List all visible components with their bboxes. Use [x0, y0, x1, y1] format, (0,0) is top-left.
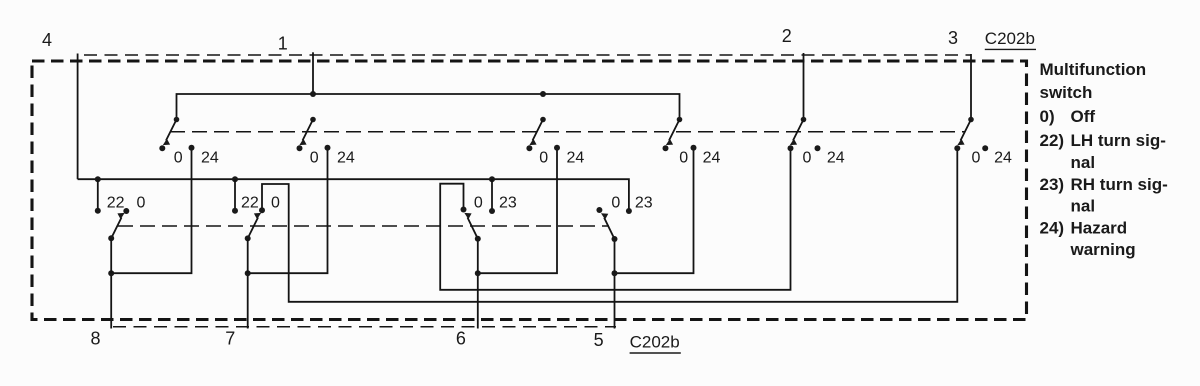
- switch SD labels 0 23: [611, 195, 652, 212]
- pin 4 wire: [77, 54, 79, 180]
- svg-text:0: 0: [971, 150, 980, 167]
- multifunction switch inner dashed outline top: [84, 54, 971, 56]
- junction node pin5: [612, 270, 618, 276]
- legend text multifunction switch: [1040, 60, 1168, 259]
- svg-text:0: 0: [611, 195, 620, 212]
- bus wire from pin 4 feeding lower switch contacts: [78, 179, 629, 211]
- pin 2 wire: [803, 53, 805, 120]
- svg-text:0: 0: [539, 150, 548, 167]
- switch S1 contact 24 wire down to pin8 node: [111, 148, 191, 273]
- switch S1 labels 0 24: [174, 150, 219, 167]
- switch S3 labels 0 24: [539, 150, 584, 167]
- svg-text:8: 8: [90, 329, 100, 349]
- switch S5: [788, 117, 821, 152]
- svg-text:0: 0: [310, 150, 319, 167]
- switch SB pivot wire to node: [247, 238, 249, 273]
- svg-text:0): 0): [1040, 107, 1055, 126]
- svg-text:0: 0: [271, 195, 280, 212]
- svg-text:23: 23: [635, 195, 653, 212]
- svg-text:23): 23): [1040, 175, 1065, 194]
- pin 1 wire: [312, 52, 314, 94]
- switch S6: [954, 117, 988, 152]
- svg-text:5: 5: [594, 330, 604, 350]
- switch SA: [95, 208, 130, 242]
- switch SB: [232, 207, 265, 241]
- switch S2 contact 24 wire down to pin7 node: [248, 148, 328, 273]
- svg-text:0: 0: [803, 150, 812, 167]
- connector name C202b top: [985, 29, 1036, 49]
- svg-text:24: 24: [827, 150, 845, 167]
- switch S4: [663, 117, 697, 152]
- pin 5 wire: [614, 273, 616, 328]
- switch S3: [526, 117, 560, 152]
- switch SB contact 22 stub: [234, 179, 236, 211]
- svg-text:0: 0: [174, 150, 183, 167]
- switch SC contact 23 stub: [491, 179, 493, 211]
- svg-text:24: 24: [703, 150, 721, 167]
- junction on pin4 bus at switch SB: [232, 176, 238, 182]
- wire link L1 switch SC lever to switch S5 lever: [440, 148, 790, 289]
- switch SA contact 22 stub: [97, 179, 99, 211]
- svg-text:nal: nal: [1071, 153, 1096, 172]
- junction node pin7: [245, 270, 251, 276]
- svg-text:Off: Off: [1071, 107, 1096, 126]
- switch SD contact 23 stub end: [596, 207, 632, 242]
- mechanical coupling dashed line upper: [170, 131, 965, 133]
- svg-text:6: 6: [456, 329, 466, 349]
- switch S6 labels 0 24: [971, 150, 1012, 167]
- svg-text:nal: nal: [1071, 197, 1096, 216]
- svg-text:Multifunction: Multifunction: [1040, 60, 1147, 79]
- svg-text:7: 7: [225, 329, 235, 349]
- switch S4 contact 24 wire down to pin5 node: [615, 148, 694, 273]
- svg-text:switch: switch: [1040, 83, 1093, 102]
- switch SC pivot wire to node: [477, 239, 479, 274]
- pin 7 wire: [247, 273, 249, 328]
- svg-text:22: 22: [241, 195, 259, 212]
- mechanical coupling dashed line lower: [118, 225, 609, 227]
- svg-text:24: 24: [201, 150, 219, 167]
- switch SA labels 22 0: [107, 195, 146, 212]
- switch S2 labels 0 24: [310, 150, 355, 167]
- svg-text:24: 24: [994, 150, 1012, 167]
- switch S2: [297, 117, 331, 152]
- svg-text:C202b: C202b: [985, 29, 1035, 48]
- svg-text:0: 0: [137, 195, 146, 212]
- switch SC labels 0 23: [474, 195, 517, 212]
- svg-text:RH turn sig-: RH turn sig-: [1071, 175, 1168, 194]
- connector C202b outer dashed boundary: [32, 61, 1027, 320]
- svg-text:2: 2: [782, 26, 792, 46]
- svg-text:3: 3: [948, 28, 958, 48]
- svg-text:23: 23: [499, 195, 517, 212]
- svg-text:C202b: C202b: [630, 333, 680, 352]
- switch S3 contact 24 wire down to pin6 node: [478, 148, 557, 273]
- svg-text:Hazard: Hazard: [1071, 219, 1128, 238]
- wire link L2 switch SB lever to switch S6 lever: [262, 148, 957, 301]
- switch S4 labels 0 24: [679, 150, 720, 167]
- svg-text:22: 22: [107, 195, 125, 212]
- connector name C202b bottom: [630, 333, 681, 353]
- svg-text:24): 24): [1040, 219, 1065, 238]
- switch SC: [461, 207, 496, 242]
- junction node pin6: [475, 270, 481, 276]
- switch SB labels 22 0: [241, 195, 280, 212]
- switch S1: [159, 117, 194, 152]
- junction on bus at switch S2: [310, 91, 316, 97]
- junction node pin8: [108, 270, 114, 276]
- junction on pin4 bus at switch SC: [489, 176, 495, 182]
- switch SA pivot wire to node: [110, 238, 112, 273]
- svg-text:0: 0: [679, 150, 688, 167]
- svg-text:22): 22): [1040, 131, 1065, 150]
- switch SD pivot wire to node: [614, 239, 616, 273]
- svg-text:0: 0: [474, 195, 483, 212]
- svg-text:4: 4: [42, 30, 52, 50]
- pin 8 wire: [110, 273, 112, 328]
- junction on bus at switch S3: [540, 91, 546, 97]
- junction on pin4 bus at switch SA: [95, 176, 101, 182]
- multifunction switch inner dashed outline bottom: [113, 326, 616, 328]
- svg-text:24: 24: [567, 150, 585, 167]
- pin 6 wire: [477, 273, 479, 328]
- svg-text:24: 24: [337, 150, 355, 167]
- bus wire from pin 1 feeding upper switch pivots: [177, 94, 680, 120]
- svg-text:LH turn sig-: LH turn sig-: [1071, 131, 1166, 150]
- switch S5 labels 0 24: [803, 150, 845, 167]
- svg-text:1: 1: [278, 34, 288, 54]
- svg-text:warning: warning: [1070, 240, 1136, 259]
- pin 3 wire: [970, 54, 972, 120]
